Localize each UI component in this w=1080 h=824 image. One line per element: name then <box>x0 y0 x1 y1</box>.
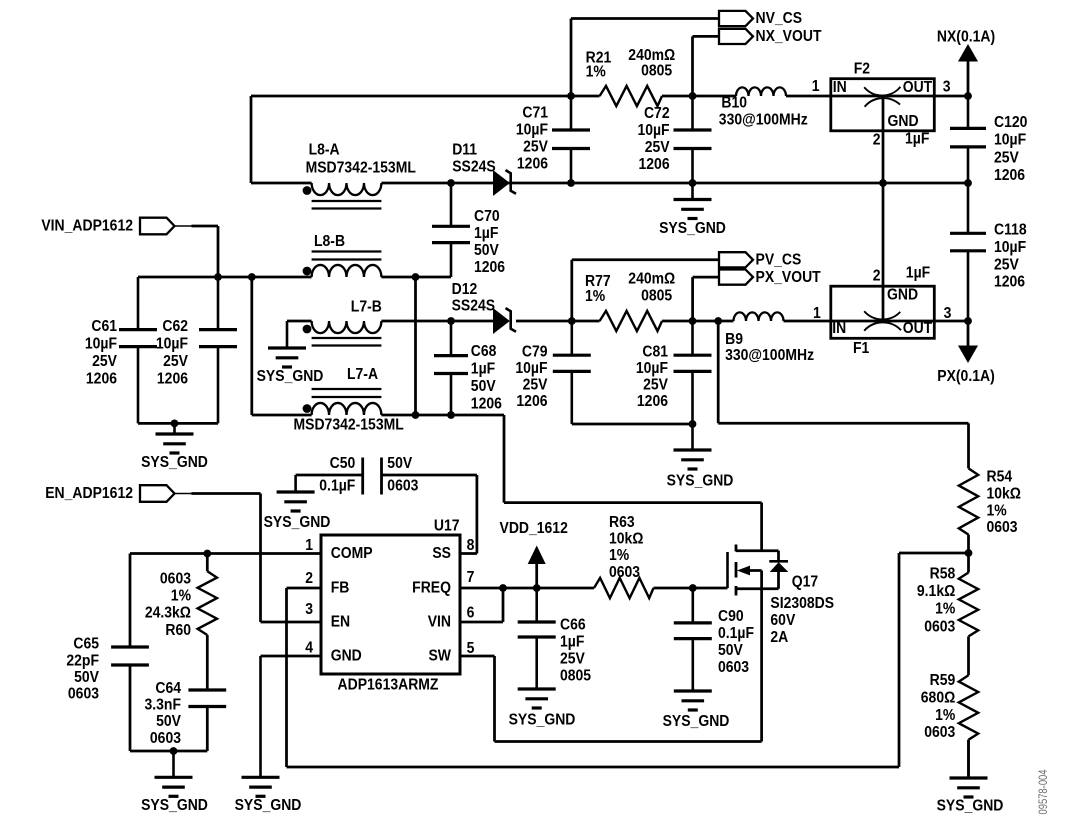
svg-text:C71: C71 <box>522 105 548 122</box>
svg-text:Q17: Q17 <box>792 574 818 591</box>
svg-text:1%: 1% <box>609 547 629 564</box>
svg-text:1%: 1% <box>935 601 955 618</box>
svg-text:U17: U17 <box>434 518 460 535</box>
svg-text:PV_CS: PV_CS <box>756 252 802 269</box>
svg-text:0603: 0603 <box>68 686 99 703</box>
svg-text:SW: SW <box>428 648 451 665</box>
svg-text:10µF: 10µF <box>516 122 548 139</box>
svg-text:C65: C65 <box>73 636 99 653</box>
svg-text:50V: 50V <box>156 713 181 730</box>
svg-text:1206: 1206 <box>86 371 117 388</box>
svg-text:0805: 0805 <box>641 288 672 305</box>
svg-text:1206: 1206 <box>517 156 548 173</box>
svg-text:1206: 1206 <box>516 393 547 410</box>
svg-text:10kΩ: 10kΩ <box>987 486 1022 503</box>
svg-text:R59: R59 <box>930 672 956 689</box>
svg-text:NV_CS: NV_CS <box>756 10 803 27</box>
svg-text:1%: 1% <box>585 288 605 305</box>
svg-text:PX(0.1A): PX(0.1A) <box>937 368 994 385</box>
svg-text:1206: 1206 <box>474 259 505 276</box>
svg-text:L7-A: L7-A <box>347 366 378 383</box>
svg-text:3: 3 <box>305 601 313 618</box>
svg-text:3: 3 <box>944 305 952 322</box>
svg-text:25V: 25V <box>523 377 548 394</box>
svg-text:22pF: 22pF <box>66 653 99 670</box>
svg-text:R58: R58 <box>930 566 956 583</box>
svg-text:SS: SS <box>432 545 451 562</box>
svg-text:F2: F2 <box>854 61 870 78</box>
svg-text:EN: EN <box>331 614 350 631</box>
svg-text:C62: C62 <box>162 318 188 335</box>
svg-text:09578-004: 09578-004 <box>1037 769 1050 814</box>
svg-text:1206: 1206 <box>157 371 188 388</box>
svg-text:25V: 25V <box>523 139 548 156</box>
svg-text:VIN: VIN <box>428 614 451 631</box>
svg-text:0603: 0603 <box>924 724 955 741</box>
svg-text:SYS_GND: SYS_GND <box>937 798 1004 815</box>
svg-text:D11: D11 <box>452 142 477 159</box>
svg-text:L8-A: L8-A <box>309 142 340 159</box>
svg-text:1206: 1206 <box>637 393 668 410</box>
svg-text:50V: 50V <box>471 378 496 395</box>
svg-text:1206: 1206 <box>471 396 502 413</box>
svg-text:10µF: 10µF <box>515 360 547 377</box>
svg-text:C90: C90 <box>718 608 744 625</box>
svg-text:C120: C120 <box>994 114 1027 131</box>
svg-text:25V: 25V <box>92 353 117 370</box>
svg-text:10µF: 10µF <box>85 336 117 353</box>
svg-text:2: 2 <box>873 132 881 149</box>
svg-text:SYS_GND: SYS_GND <box>257 368 324 385</box>
svg-text:SYS_GND: SYS_GND <box>141 454 208 471</box>
svg-text:SS24S: SS24S <box>452 159 496 176</box>
svg-text:0805: 0805 <box>560 668 591 685</box>
svg-text:C66: C66 <box>560 617 586 634</box>
svg-text:D12: D12 <box>452 281 478 298</box>
svg-text:24.3kΩ: 24.3kΩ <box>145 605 191 622</box>
svg-text:7: 7 <box>467 569 475 586</box>
svg-text:MSD7342-153ML: MSD7342-153ML <box>294 417 404 434</box>
svg-text:1: 1 <box>813 305 821 322</box>
svg-text:1206: 1206 <box>994 167 1025 184</box>
svg-text:3.3nF: 3.3nF <box>145 697 181 714</box>
svg-text:25V: 25V <box>994 150 1019 167</box>
svg-text:FB: FB <box>331 580 350 597</box>
svg-text:SYS_GND: SYS_GND <box>667 473 734 490</box>
svg-text:NX(0.1A): NX(0.1A) <box>937 29 995 46</box>
svg-text:C79: C79 <box>522 344 548 361</box>
svg-text:1%: 1% <box>935 707 955 724</box>
svg-text:SYS_GND: SYS_GND <box>141 797 208 814</box>
svg-text:50V: 50V <box>74 669 99 686</box>
svg-text:SYS_GND: SYS_GND <box>509 712 576 729</box>
svg-text:SS24S: SS24S <box>452 298 496 315</box>
svg-text:ADP1613ARMZ: ADP1613ARMZ <box>338 677 439 694</box>
svg-text:IN: IN <box>832 320 846 337</box>
svg-text:OUT: OUT <box>903 320 932 337</box>
svg-text:240mΩ: 240mΩ <box>628 271 675 288</box>
svg-text:0805: 0805 <box>641 63 672 80</box>
svg-text:IN: IN <box>833 79 847 96</box>
svg-text:240mΩ: 240mΩ <box>628 47 675 64</box>
svg-text:EN_ADP1612: EN_ADP1612 <box>45 485 133 502</box>
svg-text:0603: 0603 <box>718 659 749 676</box>
svg-text:680Ω: 680Ω <box>921 690 956 707</box>
svg-text:OUT: OUT <box>903 79 932 96</box>
svg-text:R63: R63 <box>609 514 635 531</box>
svg-text:8: 8 <box>467 537 475 554</box>
svg-text:SYS_GND: SYS_GND <box>659 220 726 237</box>
svg-text:1: 1 <box>812 78 820 95</box>
svg-text:C61: C61 <box>91 318 117 335</box>
svg-text:4: 4 <box>305 640 313 657</box>
svg-text:1%: 1% <box>586 64 606 81</box>
svg-text:VDD_1612: VDD_1612 <box>500 520 568 537</box>
svg-text:0.1µF: 0.1µF <box>718 625 754 642</box>
svg-text:F1: F1 <box>853 340 869 357</box>
svg-text:FREQ: FREQ <box>412 580 451 597</box>
svg-text:COMP: COMP <box>331 545 373 562</box>
svg-text:1: 1 <box>305 537 313 554</box>
svg-text:R54: R54 <box>987 469 1013 486</box>
svg-text:0.1µF: 0.1µF <box>319 478 355 495</box>
svg-text:NX_VOUT: NX_VOUT <box>756 28 822 45</box>
svg-text:1µF: 1µF <box>906 265 930 282</box>
svg-text:25V: 25V <box>163 353 188 370</box>
svg-text:PX_VOUT: PX_VOUT <box>756 269 821 286</box>
svg-text:1206: 1206 <box>639 156 670 173</box>
svg-text:GND: GND <box>888 113 919 130</box>
svg-text:330@100MHz: 330@100MHz <box>725 347 814 364</box>
svg-text:B9: B9 <box>725 331 743 348</box>
svg-text:50V: 50V <box>718 642 743 659</box>
svg-text:0603: 0603 <box>924 619 955 636</box>
svg-text:R60: R60 <box>165 622 191 639</box>
svg-text:MSD7342-153ML: MSD7342-153ML <box>306 160 416 177</box>
svg-text:0603: 0603 <box>150 730 181 747</box>
svg-text:C118: C118 <box>994 222 1027 239</box>
svg-text:25V: 25V <box>560 651 585 668</box>
svg-text:10µF: 10µF <box>636 360 668 377</box>
svg-text:SYS_GND: SYS_GND <box>264 514 331 531</box>
svg-text:GND: GND <box>331 648 362 665</box>
svg-text:10µF: 10µF <box>637 122 669 139</box>
svg-text:C64: C64 <box>155 680 181 697</box>
svg-text:GND: GND <box>887 287 918 304</box>
svg-text:0603: 0603 <box>160 571 191 588</box>
svg-text:1%: 1% <box>987 503 1007 520</box>
svg-text:2A: 2A <box>770 629 788 646</box>
svg-text:B10: B10 <box>721 95 747 112</box>
svg-text:330@100MHz: 330@100MHz <box>719 112 808 129</box>
svg-text:C50: C50 <box>330 455 356 472</box>
svg-text:1%: 1% <box>171 588 191 605</box>
svg-text:9.1kΩ: 9.1kΩ <box>917 583 955 600</box>
svg-text:C72: C72 <box>644 105 670 122</box>
svg-text:1µF: 1µF <box>474 225 498 242</box>
svg-text:C81: C81 <box>642 344 668 361</box>
svg-text:C70: C70 <box>474 208 500 225</box>
svg-text:3: 3 <box>943 79 951 96</box>
svg-text:6: 6 <box>467 605 475 622</box>
svg-text:10kΩ: 10kΩ <box>609 531 644 548</box>
svg-text:1µF: 1µF <box>905 131 929 148</box>
svg-text:10µF: 10µF <box>994 239 1026 256</box>
svg-text:1206: 1206 <box>994 274 1025 291</box>
svg-text:2: 2 <box>873 268 881 285</box>
svg-text:1µF: 1µF <box>560 634 584 651</box>
svg-text:50V: 50V <box>387 455 412 472</box>
svg-text:60V: 60V <box>770 612 795 629</box>
svg-text:0603: 0603 <box>609 564 640 581</box>
svg-text:25V: 25V <box>643 377 668 394</box>
svg-text:25V: 25V <box>645 139 670 156</box>
svg-text:50V: 50V <box>474 242 499 259</box>
svg-text:VIN_ADP1612: VIN_ADP1612 <box>41 218 133 235</box>
svg-text:SYS_GND: SYS_GND <box>663 713 730 730</box>
svg-text:0603: 0603 <box>387 478 418 495</box>
svg-text:25V: 25V <box>994 257 1019 274</box>
svg-text:SYS_GND: SYS_GND <box>235 797 302 814</box>
svg-text:C68: C68 <box>471 343 497 360</box>
svg-text:10µF: 10µF <box>994 132 1026 149</box>
svg-text:L7-B: L7-B <box>351 299 382 316</box>
svg-text:0603: 0603 <box>987 519 1018 536</box>
svg-text:2: 2 <box>305 570 313 587</box>
svg-text:1µF: 1µF <box>471 361 495 378</box>
svg-text:10µF: 10µF <box>156 336 188 353</box>
svg-text:SI2308DS: SI2308DS <box>770 595 834 612</box>
svg-text:L8-B: L8-B <box>314 233 345 250</box>
